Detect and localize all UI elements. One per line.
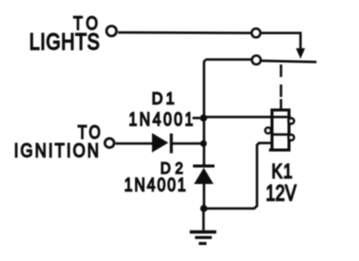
diode D1 cathode bar [170,134,173,154]
svg-text:IGNITION: IGNITION [14,140,101,162]
wire D1 cathode to node B [173,142,204,145]
diode D2 triangle (points up) [194,168,214,184]
dashed mechanical link from armature to coil [280,65,282,111]
ground stem [202,209,205,231]
wire main vertical (upper part) [204,60,206,165]
terminal circle TO IGNITION [105,138,114,147]
wire node C to relay coil bottom [204,143,272,209]
leader dash from 1N4001 to node A [193,117,201,120]
wire armature right segment [261,61,317,62]
terminal circle TO LIGHTS [107,26,117,36]
svg-text:1N4001: 1N4001 [124,174,188,195]
diode D2 cathode bar [193,165,215,168]
svg-text:12V: 12V [266,181,297,206]
relay coil loop bump left [265,128,271,134]
wire to relay coil top terminal [204,116,272,119]
relay coil K1 body [272,110,289,150]
ground bar 1 [190,230,217,233]
wire from ignition terminal to D1 anode [116,142,153,145]
node C junction dot [200,205,207,212]
ground bar 3 [199,242,207,245]
svg-text:LIGHTS: LIGHTS [29,30,100,55]
armature arrow (points down) [296,48,305,59]
svg-text:1N4001: 1N4001 [129,109,196,130]
wire from upper contact to corner and down [261,33,301,49]
svg-text:D1: D1 [152,89,178,108]
relay contact circle (lower) [252,56,261,65]
wire top from lights terminal to contact [118,31,252,34]
diode D1 triangle [152,133,168,153]
ground bar 2 [195,236,212,239]
relay coil divider line [271,133,290,136]
wire armature left segment [206,58,252,61]
wire D2 anode to node C [203,184,206,209]
relay coil cap line [271,116,291,119]
relay coil bottom line overshoot [269,149,290,152]
node B junction dot [200,140,207,147]
relay coil loop bump right lower [289,135,294,140]
relay coil loop bump right upper [289,118,294,123]
node A junction dot [200,114,207,121]
relay contact circle (upper) [252,29,261,38]
svg-text:K1: K1 [272,159,294,182]
